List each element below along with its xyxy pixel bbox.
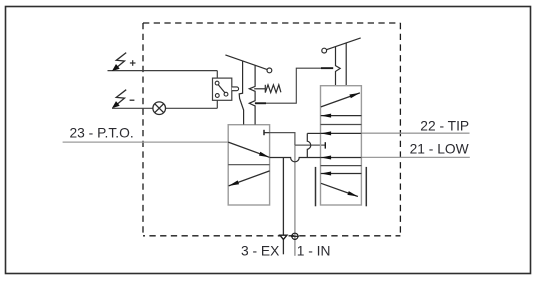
pilot bar right valve — [321, 67, 333, 69]
valve V2 cellB LOW arrow — [321, 157, 362, 159]
valve V1 bottom flow arrow — [229, 171, 270, 186]
battery plus arrow symbol — [116, 53, 127, 69]
valve V2 cellA diagonal arrow — [321, 93, 360, 107]
valve V2 stem right — [345, 43, 347, 86]
valve V1 lever — [225, 55, 267, 70]
valve V1 top flow arrow — [228, 142, 269, 157]
wire minus supply — [112, 107, 153, 109]
valve V2 cellC horizontal arrow — [321, 173, 362, 175]
switch box — [213, 78, 232, 100]
switch blade — [218, 85, 225, 93]
port line 23 P.T.O. — [63, 141, 229, 143]
exhaust triangle — [280, 235, 287, 239]
valve V2 stem left with pilot notch — [336, 47, 341, 86]
switch contact mid — [224, 92, 228, 96]
valve V2 divider top — [321, 124, 362, 126]
LOW line with hop over supply — [270, 158, 321, 162]
valve V2 cellA horizontal arrow — [321, 115, 362, 117]
TIP port stub left of valve — [307, 132, 320, 134]
valve V2 body — [321, 86, 362, 205]
port line 21 LOW — [361, 156, 469, 158]
valve V1 stem left — [239, 61, 243, 125]
pilot port tick valve V2 — [324, 142, 326, 148]
valve V1 body — [228, 125, 269, 205]
valve V2 lever roller — [322, 48, 327, 53]
wire plus supply — [108, 70, 218, 72]
valve V1 stem right with pilot notches — [249, 65, 255, 124]
svg-text:1 - IN: 1 - IN — [297, 243, 331, 258]
switch contact bottom — [215, 94, 219, 98]
svg-text:22 - TIP: 22 - TIP — [420, 118, 469, 133]
pilot link wire — [266, 68, 321, 103]
svg-text:21 - LOW: 21 - LOW — [410, 141, 469, 156]
exhaust line 3-EX — [282, 158, 284, 255]
svg-text:23 - P.T.O.: 23 - P.T.O. — [70, 126, 134, 141]
valve V2 cellC diagonal arrow — [321, 183, 358, 196]
valve V2 divider bottom — [321, 165, 362, 167]
detent bar right — [365, 167, 367, 206]
indicator lamp — [153, 102, 166, 115]
valve V1 blocked port T — [263, 130, 265, 135]
valve V1 divider — [228, 164, 269, 166]
wire loop right verticals — [216, 71, 218, 79]
supply source circle 1-IN — [292, 233, 298, 239]
valve V2 cellB TIP arrow — [321, 132, 362, 134]
pilot bar left valve — [255, 102, 266, 104]
minus sign — [130, 99, 135, 101]
plus sign — [130, 62, 136, 64]
supply wire from valve V1 port to 1-IN riser — [270, 133, 295, 145]
supply riser 1-IN — [294, 145, 296, 256]
link TIP-port to LOW line vertical with hop — [307, 133, 310, 157]
battery minus arrow symbol — [116, 90, 127, 106]
detent bar left — [315, 167, 317, 206]
port line 22 TIP — [361, 132, 469, 134]
switch contact top — [215, 81, 219, 85]
return spring — [254, 88, 265, 90]
valve V2 lever — [327, 38, 361, 50]
valve V1 lever roller — [267, 68, 272, 73]
pilot branch to valve V2 — [295, 144, 325, 146]
dashed enclosure box — [143, 22, 400, 24]
switch actuating tab — [232, 87, 239, 91]
svg-text:3 - EX: 3 - EX — [241, 243, 279, 258]
